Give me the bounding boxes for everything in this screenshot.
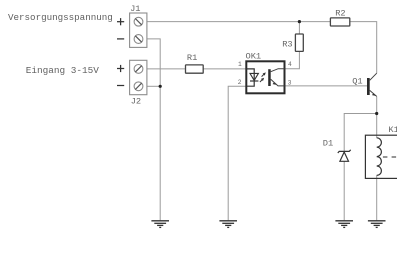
ground symbol under K1: [368, 221, 386, 228]
OK1 LED cathode lead: [246, 81, 254, 86]
OK1 emitter arrowhead: [273, 83, 277, 85]
OK1 LED anode lead: [246, 69, 254, 81]
wire net VCC top: R2 to right corner and down to Q1 collector: [350, 22, 377, 74]
OK1 phototransistor emitter: [271, 79, 285, 86]
Q1 emitter arrowhead: [372, 93, 376, 96]
D1 triangle: [340, 152, 349, 161]
wire R3 bottom to OK1 pin4: [285, 51, 300, 68]
svg-text:R3: R3: [282, 39, 292, 49]
OK1 light arrow upper: [262, 72, 266, 76]
OK1 light arrow lower: [260, 78, 264, 82]
OK1 LED cathode bar: [250, 80, 258, 82]
svg-text:D1: D1: [323, 139, 333, 149]
wire net VCC top: J1+ to R2: [147, 21, 331, 23]
zener diode D1 bar with hooks: [338, 150, 351, 153]
wire junction to R3 top: [298, 22, 300, 34]
svg-text:J2: J2: [131, 97, 141, 107]
svg-text:R1: R1: [187, 53, 197, 63]
svg-text:3: 3: [288, 79, 292, 86]
wire J1- down to ground: [147, 39, 160, 221]
ground symbol under OK1 pin2: [219, 221, 237, 228]
wire J2- to junction: [147, 85, 160, 87]
svg-text:Versorgungsspannung: Versorgungsspannung: [8, 12, 113, 23]
svg-text:R2: R2: [335, 8, 345, 18]
J2 plus sign: [117, 65, 124, 72]
J1 minus sign: [117, 38, 124, 40]
resistor R3: [295, 34, 303, 51]
relay K1 body: [365, 135, 397, 178]
wire Q1 emitter down to relay coil: [376, 96, 378, 137]
svg-text:4: 4: [288, 61, 292, 68]
svg-text:2: 2: [238, 79, 242, 86]
connector J1: [130, 13, 147, 47]
Q1 emitter lead: [370, 90, 377, 96]
OK1 phototransistor collector: [271, 69, 285, 72]
OK1 phototransistor bar: [268, 69, 271, 86]
connector J2: [130, 60, 147, 94]
junction dot at J2-/GND rail: [159, 85, 162, 88]
OK1 LED triangle: [250, 73, 258, 80]
svg-text:Q1: Q1: [352, 77, 362, 87]
ground symbol under J1/J2 rail: [151, 221, 169, 228]
J2 minus sign: [117, 85, 124, 87]
svg-text:OK1: OK1: [246, 52, 262, 62]
wire OK1 pin2 left and down to ground: [228, 86, 246, 220]
ground symbol under D1: [335, 221, 353, 228]
wire OK1 pin3 to Q1 base: [285, 85, 368, 87]
junction dot at VCC/R3: [298, 20, 301, 23]
svg-text:1: 1: [238, 61, 242, 68]
wire R1 to OK1 pin1: [203, 68, 246, 70]
Q1 collector lead: [370, 73, 377, 80]
transistor Q1 base bar: [367, 78, 370, 95]
svg-text:K1: K1: [388, 125, 397, 135]
K1 coil: [377, 138, 382, 176]
K1 actuator dashed link: [383, 156, 397, 158]
svg-text:Eingang 3-15V: Eingang 3-15V: [26, 65, 100, 76]
svg-text:J1: J1: [130, 4, 140, 14]
wire J2+ to R1: [147, 68, 186, 70]
J1 screw slashes: [135, 19, 141, 43]
resistor R1: [186, 65, 204, 73]
junction dot at Q1 emitter node: [375, 112, 378, 115]
J1 plus sign: [117, 18, 124, 25]
wire emitter node to D1 top: [344, 114, 377, 152]
optocoupler OK1 body: [246, 61, 284, 93]
wire D1 bottom to ground: [343, 161, 345, 220]
wire relay coil bottom to ground: [376, 175, 378, 220]
J2 screw slashes: [135, 66, 141, 90]
resistor R2: [330, 18, 349, 26]
